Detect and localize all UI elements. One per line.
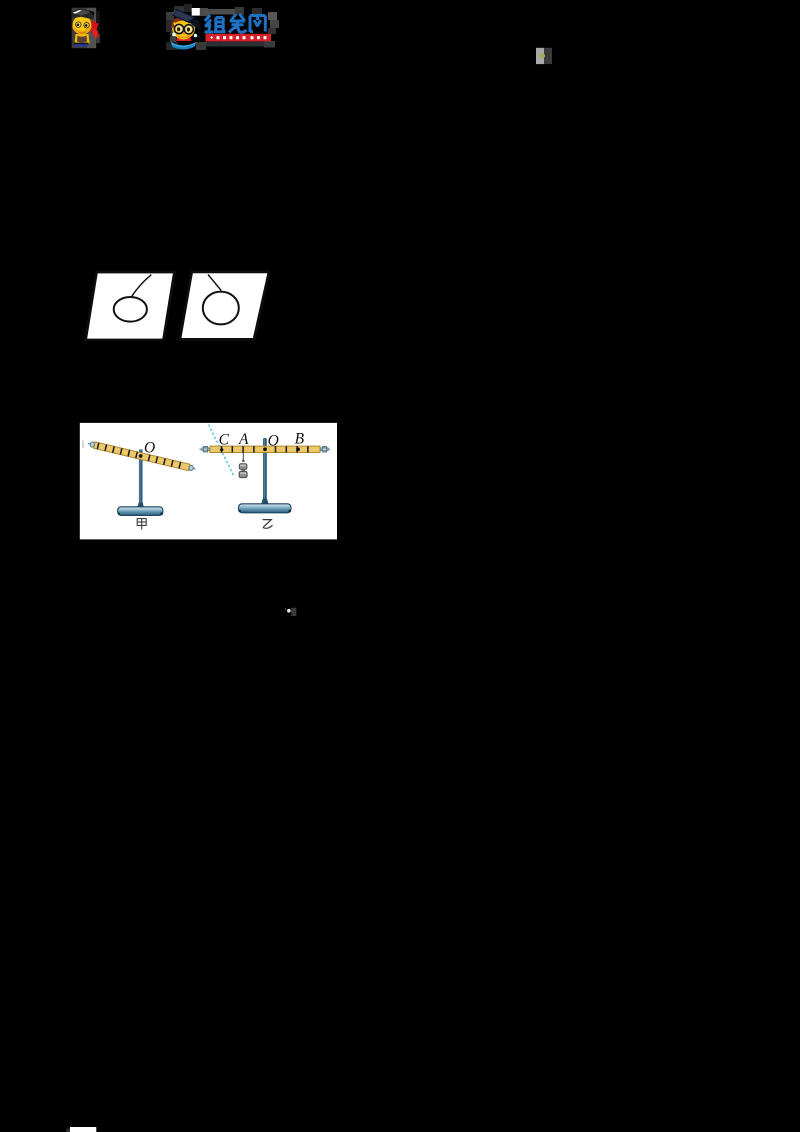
yi character (drawn) (263, 520, 273, 529)
dashed guide line (209, 425, 234, 477)
ball 2 (203, 292, 239, 325)
red banner (206, 34, 272, 42)
ball 1 (114, 297, 147, 322)
RIGHT (yi): horizontal lever (200, 425, 331, 529)
marker dots (220, 448, 224, 453)
tiny two-tone icon near top middle-right (536, 48, 552, 64)
labels C A O B (219, 431, 305, 450)
beak (183, 33, 186, 36)
LEFT (jia): tilted lever (87, 440, 196, 530)
string 1 (132, 275, 152, 297)
tilted lever with ticks (87, 440, 196, 472)
head (73, 15, 92, 34)
jia character (drawn) (137, 519, 146, 530)
gloves (172, 33, 176, 37)
svg-text:O: O (144, 440, 155, 457)
glasses (174, 24, 183, 33)
parallelogram 1 (86, 272, 175, 340)
hanger with weights at A (239, 453, 247, 478)
base (239, 504, 292, 513)
pivot dot (139, 454, 143, 458)
logo 1: small mascot with gray backdrop (71, 8, 100, 49)
组 (205, 15, 214, 32)
base (118, 507, 163, 516)
end caps (88, 444, 94, 445)
卷 (229, 14, 246, 33)
logo 2: mascot + 组卷网 with checkered gray backdrop (166, 4, 279, 50)
svg-text:www.zujuan.com zujuan xitong: www.zujuan.com zujuan xitong (207, 42, 273, 47)
bottom-left white bar (page footer fragment) (66, 1127, 96, 1132)
网 (250, 16, 265, 33)
mortarboard (172, 9, 197, 24)
parallelogram 2 (180, 272, 269, 340)
graduation cap (71, 8, 95, 19)
hair (171, 21, 175, 28)
tiny gray icon with white dot (mid page) (285, 608, 297, 616)
svg-text:O: O (268, 432, 279, 449)
string 2 (208, 275, 221, 291)
svg-text:B: B (295, 431, 305, 448)
checker blocks (166, 12, 174, 20)
horizontal lever (210, 446, 320, 452)
red scarf (176, 37, 192, 42)
blue book base (171, 42, 196, 49)
end caps (200, 448, 211, 450)
blue characters 组卷网 (drawn) (205, 14, 266, 33)
svg-text:A: A (238, 431, 249, 448)
body (75, 34, 90, 44)
mascot (169, 9, 201, 50)
svg-text:C: C (219, 431, 230, 448)
red ribbon (90, 20, 100, 38)
glasses (76, 22, 81, 27)
face (172, 17, 195, 40)
mouth (78, 31, 86, 34)
figure: lever balance experiment (white panel) (80, 423, 337, 540)
figure: two parallelogram sheets with hanging ball (86, 272, 270, 340)
stand pole (263, 438, 267, 503)
stand pole (139, 450, 143, 507)
